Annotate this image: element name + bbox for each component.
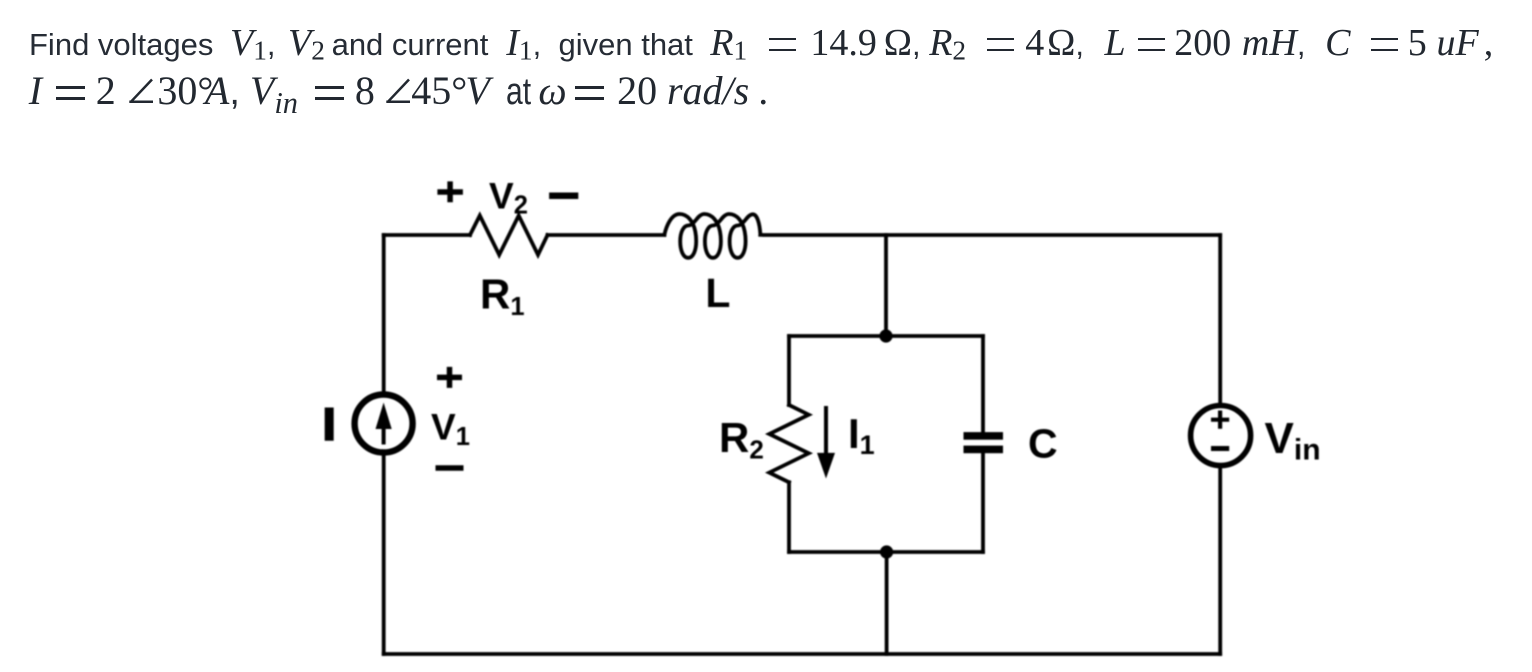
wire left rail upper <box>382 235 386 394</box>
current source I <box>355 395 413 453</box>
arrow I1 (current direction) <box>817 406 835 479</box>
wire top rail left segment <box>384 233 470 237</box>
wire right rail lower <box>1218 467 1222 654</box>
wire box left upper <box>787 336 791 405</box>
wire box top <box>789 334 983 338</box>
node junction top <box>879 329 892 342</box>
svg-text:Vin: Vin <box>1265 414 1321 467</box>
resistor R1 <box>470 216 548 255</box>
svg-text:R2: R2 <box>719 414 764 465</box>
voltage source Vin <box>1191 406 1251 466</box>
inductor L <box>664 214 760 258</box>
label plus of V2 <box>437 181 463 202</box>
svg-text:I: I <box>323 401 335 450</box>
node junction bottom <box>880 545 893 558</box>
capacitor C <box>964 432 1004 453</box>
svg-text:V2: V2 <box>489 176 528 220</box>
problem text line 2 <box>28 63 768 120</box>
wire top rail right segment <box>760 233 1220 237</box>
wire right rail upper <box>1218 235 1222 404</box>
svg-text:I1: I1 <box>848 410 875 460</box>
wire top rail mid segment <box>548 233 665 237</box>
wire box right lower <box>981 453 985 552</box>
svg-text:R1: R1 <box>480 271 525 321</box>
svg-text:V1: V1 <box>431 406 470 451</box>
label plus of V1 <box>437 367 462 388</box>
wire bottom rail <box>384 652 1220 656</box>
svg-text:L: L <box>705 270 730 316</box>
label minus of V1 <box>436 465 464 471</box>
wire middle top stub <box>884 235 888 336</box>
wire box left lower <box>787 482 791 552</box>
svg-text:C: C <box>1028 421 1058 467</box>
wire middle bottom stub <box>885 552 889 654</box>
wire box right upper <box>981 336 985 432</box>
problem text line 1 <box>29 15 1493 73</box>
resistor R2 <box>769 405 808 482</box>
wire left rail lower <box>382 453 386 654</box>
label minus of V2 <box>549 192 578 199</box>
wire box bottom <box>789 550 983 554</box>
